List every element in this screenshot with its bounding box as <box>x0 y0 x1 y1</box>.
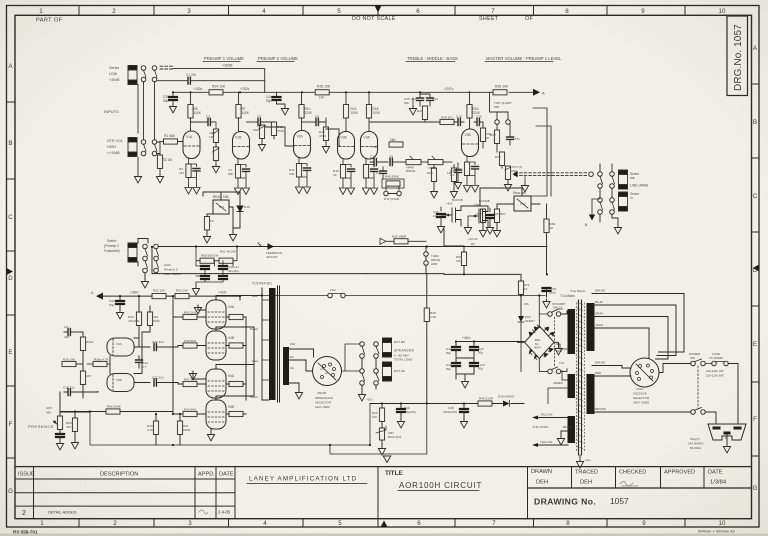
svg-text:VR2: VR2 <box>253 128 259 132</box>
coupling cap C22 to bottom grid <box>134 382 150 384</box>
power switch S1 pole2 <box>691 410 696 415</box>
resistor R30a vertical <box>80 337 85 351</box>
capacitor C7 series <box>374 159 376 166</box>
svg-text:5: 5 <box>337 8 341 15</box>
svg-text:2: 2 <box>112 8 116 15</box>
svg-text:4: 4 <box>262 8 266 15</box>
svg-text:DETAIL ADDED: DETAIL ADDED <box>48 510 77 515</box>
preset VR7 bias adjust <box>379 428 384 440</box>
ground cathode pair1 <box>198 305 206 310</box>
heater arrow bottom <box>532 443 538 447</box>
svg-text:V3B: V3B <box>116 378 122 382</box>
bottom band column ticks <box>79 519 685 527</box>
resistor R24 on rail <box>209 90 223 95</box>
svg-text:Preamp 2: Preamp 2 <box>164 268 178 272</box>
svg-text:V4A: V4A <box>228 305 235 309</box>
svg-text:220R: 220R <box>183 428 191 432</box>
wire bias line <box>370 403 524 405</box>
svg-text:INPUTS: INPUTS <box>104 109 119 114</box>
ground VR1 <box>212 164 219 173</box>
capacitor C1 coupling top line <box>157 80 188 82</box>
wire dashed bypass +30dB <box>160 65 173 67</box>
wire input routing <box>138 82 160 174</box>
svg-text:V2A: V2A <box>297 135 304 139</box>
svg-text:1057: 1057 <box>610 496 629 506</box>
svg-text:APPROVED: APPROVED <box>664 470 695 476</box>
svg-text:TREBLE - MIDDLE - BASS: TREBLE - MIDDLE - BASS <box>407 56 458 61</box>
core ground arrow <box>579 455 581 459</box>
svg-text:R42 1K5: R42 1K5 <box>184 311 196 315</box>
resistor R68 <box>461 252 466 266</box>
capacitor C15 <box>458 119 460 126</box>
svg-text:E: E <box>753 341 757 348</box>
svg-text:4 8: 4 8 <box>320 367 324 371</box>
svg-text:R.R QUAD: R.R QUAD <box>384 197 400 201</box>
svg-text:IMPEDANCE: IMPEDANCE <box>315 396 333 400</box>
cap C17 <box>507 137 514 139</box>
svg-text:4.7: 4.7 <box>142 365 147 369</box>
wire VT2 lower bus <box>365 229 520 274</box>
svg-text:50K: 50K <box>494 105 500 109</box>
screen resistor R52 <box>229 343 243 348</box>
wire primary tap yellow <box>592 328 649 359</box>
svg-text:DO NOT SCALE: DO NOT SCALE <box>352 16 396 22</box>
svg-text:10K: 10K <box>372 415 377 419</box>
svg-text:R29: R29 <box>495 155 501 159</box>
svg-text:2.2: 2.2 <box>450 173 455 177</box>
transistor VT4 fet <box>461 206 488 227</box>
svg-text:D13: D13 <box>244 205 250 209</box>
svg-text:R47 5K6: R47 5K6 <box>184 378 196 382</box>
svg-text:1K: 1K <box>524 287 528 291</box>
svg-text:C6: C6 <box>315 115 319 119</box>
svg-text:DRG.No. 1057: DRG.No. 1057 <box>733 24 744 91</box>
jack J8 ext speaker bottom <box>383 362 392 381</box>
line jacks cluster contacts col2 <box>598 198 603 203</box>
svg-text:6.3V HTRS: 6.3V HTRS <box>533 425 548 429</box>
resistor R45 bias divider <box>381 404 383 409</box>
svg-text:+30dB: +30dB <box>222 64 233 68</box>
svg-text:APPD.: APPD. <box>198 472 215 478</box>
ground droppers <box>192 286 199 295</box>
svg-text:Blue: Blue <box>252 294 258 298</box>
right band row letters <box>753 45 758 492</box>
svg-text:100K: 100K <box>373 111 381 115</box>
svg-text:400V: 400V <box>534 346 541 350</box>
resistor R66 <box>480 205 483 207</box>
ground C35 <box>486 225 493 234</box>
svg-text:T1A: T1A <box>559 361 564 365</box>
anode resistor R15 <box>345 92 347 104</box>
svg-text:100K: 100K <box>242 111 250 115</box>
wire feedback dashed pair to line jacks <box>515 172 588 174</box>
svg-text:1M: 1M <box>209 135 214 139</box>
anode resistor R10 <box>301 92 303 104</box>
svg-text:MAUVE: MAUVE <box>595 361 605 365</box>
capacitor C40 filter <box>201 266 209 269</box>
svg-text:R06 100K: R06 100K <box>107 405 122 409</box>
ground VT4 source <box>464 225 471 234</box>
svg-text:SELECTOR: SELECTOR <box>633 396 650 400</box>
svg-text:MAUVE: MAUVE <box>595 289 605 293</box>
svg-text:Brown: Brown <box>250 395 258 399</box>
svg-text:E: E <box>8 349 12 356</box>
svg-text:2: 2 <box>113 520 117 527</box>
reverb drive network C8 R45 <box>370 121 436 123</box>
wire footswitch feed <box>138 239 547 280</box>
screen resistor R54 <box>229 411 243 416</box>
svg-text:6: 6 <box>417 520 421 527</box>
resistor R25 on rail <box>315 90 329 95</box>
resistor R10b 470K <box>271 122 276 136</box>
jack J3 footswitch <box>128 243 137 262</box>
output tube V4A <box>206 300 226 329</box>
svg-text:22n: 22n <box>64 335 69 339</box>
dashed winding separators T1 <box>576 303 578 452</box>
wire bridge left to caps <box>518 341 525 344</box>
capacitor C43 reservoir <box>470 347 478 350</box>
diode D14 feedback <box>261 246 268 248</box>
svg-text:CHECKED: CHECKED <box>619 470 646 476</box>
svg-text:C16: C16 <box>476 115 482 119</box>
ground C31 <box>116 310 123 319</box>
svg-text:447: 447 <box>86 374 91 378</box>
resistor R22 shunt <box>431 168 436 182</box>
svg-text:DRIVE: DRIVE <box>406 169 415 173</box>
svg-text:Brown: Brown <box>250 327 258 331</box>
ground VR7 <box>378 446 385 455</box>
wire cathode grounds tubes <box>215 329 217 400</box>
coupling cap C4 in <box>64 331 68 333</box>
wire VT2 connections <box>480 188 540 206</box>
voltage selector VS1 <box>630 358 659 387</box>
svg-text:VT2: VT2 <box>520 202 526 206</box>
resistor R36 grid horizontal <box>93 361 107 366</box>
resistor R30 3K3 <box>440 119 454 124</box>
svg-text:SHEET: SHEET <box>479 16 499 22</box>
svg-text:R28: R28 <box>490 133 496 137</box>
pot VR1 preamp1 volume <box>213 129 218 143</box>
ground VR2 <box>258 142 265 151</box>
bottom centre mark <box>381 521 388 528</box>
tube V1A <box>183 131 200 159</box>
svg-text:7: 7 <box>492 520 496 527</box>
tube V2B <box>338 132 355 160</box>
svg-text:V3B: V3B <box>465 133 472 137</box>
pot VR6 presence <box>59 412 61 416</box>
resistor R36b <box>480 128 485 142</box>
left centre mark <box>7 268 14 275</box>
svg-text:50µ: 50µ <box>404 101 409 105</box>
svg-text:+5v6: +5v6 <box>446 202 453 206</box>
svg-text:BLUE: BLUE <box>595 300 603 304</box>
svg-text:+415v: +415v <box>218 291 227 295</box>
svg-text:50µ: 50µ <box>478 351 483 355</box>
svg-text:4Ω: 4Ω <box>290 366 294 370</box>
tube V3A <box>361 132 378 160</box>
svg-text:R46 220R: R46 220R <box>479 397 494 401</box>
anode resistor R5 <box>190 92 192 104</box>
resistor R45 390K boxed <box>382 179 404 188</box>
svg-text:R1 68K: R1 68K <box>164 134 176 138</box>
jack J6 series in <box>619 192 628 211</box>
svg-text:VR200: VR200 <box>317 391 327 395</box>
resistor R71 screen dropper <box>520 274 522 281</box>
wire T1 secondary heater taps <box>538 418 568 446</box>
svg-text:V3A: V3A <box>116 342 122 346</box>
svg-text:DRAWING No.: DRAWING No. <box>534 497 596 507</box>
ground cathode pair2 <box>193 371 206 379</box>
resistor R60b 4K7 <box>72 418 77 432</box>
ground C13 <box>412 98 414 106</box>
left band row letters <box>8 63 13 495</box>
wire feedback upper <box>152 247 426 274</box>
svg-text:470K: 470K <box>319 134 327 138</box>
cap C10 lower <box>68 389 70 396</box>
svg-text:100K: 100K <box>351 111 359 115</box>
svg-text:VOLTAGE: VOLTAGE <box>633 392 647 396</box>
svg-text:33K: 33K <box>46 411 51 415</box>
mains transformer core <box>579 300 582 455</box>
ground bridge right <box>554 342 559 346</box>
capacitor C presence <box>56 434 64 437</box>
svg-text:BIAS ADJ: BIAS ADJ <box>388 435 402 439</box>
checked signature <box>620 482 638 487</box>
svg-text:6: 6 <box>416 8 420 15</box>
wire brown to switch pole2 <box>592 411 691 413</box>
svg-text:BROWN: BROWN <box>595 407 606 411</box>
svg-text:47K/2W: 47K/2W <box>128 319 139 323</box>
jack J1 contacts <box>141 66 146 71</box>
wire bias to grid bus <box>173 404 370 446</box>
ground input jacks <box>134 174 141 183</box>
svg-text:680R: 680R <box>399 235 407 239</box>
ground dash line <box>521 183 528 192</box>
resistor R26 on rail <box>493 90 507 95</box>
svg-text:100-120v 5AT: 100-120v 5AT <box>706 374 724 378</box>
ground C19 <box>454 180 461 189</box>
coupling network V1A to V1B <box>191 121 209 123</box>
wire OT secondary taps <box>289 349 314 390</box>
heater arrow top <box>532 416 538 420</box>
svg-text:Slate: Slate <box>252 359 259 363</box>
svg-text:10: 10 <box>719 520 726 527</box>
resistor R23 grid leak V1B <box>451 168 456 182</box>
svg-text:C13: C13 <box>411 97 417 101</box>
jack J2 gtr input <box>128 138 137 157</box>
svg-text:+30dB: +30dB <box>109 78 120 82</box>
wire R1 to V1A grid <box>178 142 184 146</box>
ground C4a <box>281 106 288 115</box>
anode resistor R33 phase tube <box>469 92 471 104</box>
cathode network V2B <box>339 159 354 195</box>
svg-text:R21: R21 <box>417 109 423 113</box>
resistor R40 <box>153 421 158 435</box>
cathode network V1B <box>234 159 249 195</box>
wire bias winding <box>548 371 568 404</box>
svg-text:4: 4 <box>263 520 267 527</box>
node A arrow head <box>533 89 540 96</box>
output tube V5A <box>206 369 226 398</box>
jack J2 contacts <box>141 140 146 145</box>
svg-text:26K: 26K <box>390 138 397 142</box>
ground tube4 bottom <box>210 429 212 432</box>
cap C44 divider <box>136 360 143 362</box>
svg-text:T1/2 REF 601: T1/2 REF 601 <box>252 282 272 286</box>
jack J5 series out <box>619 170 628 189</box>
svg-text:MASTER VOLUME - PREAMP 1 LEVEL: MASTER VOLUME - PREAMP 1 LEVEL <box>486 56 562 61</box>
wire VR2 wiper to V2A grid <box>265 127 294 146</box>
resistor R64 collector <box>546 204 548 219</box>
svg-text:50µ: 50µ <box>109 303 114 307</box>
wire footswitch top link <box>138 239 148 244</box>
grid resistor R47 tube3 <box>183 381 197 386</box>
tube V2A <box>294 131 311 159</box>
cathode network V3A <box>362 159 377 195</box>
svg-text:R62 10K: R62 10K <box>153 289 166 293</box>
grid resistor R48 tube2 <box>183 343 197 348</box>
resistor R41 <box>177 421 182 435</box>
ground presence <box>56 441 63 450</box>
svg-text:DESCRIPTION: DESCRIPTION <box>100 472 138 478</box>
right centre mark <box>753 265 760 272</box>
wire grid bus vertical <box>173 313 178 414</box>
svg-text:TOP QUART: TOP QUART <box>494 101 512 105</box>
ground C30 <box>169 104 176 113</box>
capacitor C42 reservoir <box>452 347 460 350</box>
wire fuse to plug <box>728 364 738 425</box>
ground R66 R67 <box>479 228 486 237</box>
resistor R67 <box>494 209 499 223</box>
svg-text:C35: C35 <box>493 212 499 216</box>
ground plug earth <box>726 435 728 445</box>
svg-text:1M: 1M <box>456 259 461 263</box>
ground VT1 collector <box>229 232 236 241</box>
ground footswitch <box>141 279 148 288</box>
tone stack caps C13 C14 <box>419 92 421 98</box>
svg-text:LANEY AMPLIFICATION LTD: LANEY AMPLIFICATION LTD <box>249 476 357 483</box>
svg-text:PREAMP 1 VOLUME: PREAMP 1 VOLUME <box>204 56 244 61</box>
svg-text:V2B: V2B <box>341 136 348 140</box>
svg-text:3: 3 <box>188 520 192 527</box>
svg-text:R22: R22 <box>427 171 433 175</box>
svg-text:Click: Click <box>164 263 171 267</box>
wire tone feed verticals <box>522 108 551 196</box>
grid resistor R42 tube1 <box>183 314 197 319</box>
svg-text:R45 390K: R45 390K <box>385 175 400 179</box>
wire anode bus left pair <box>216 296 262 401</box>
svg-text:16: 16 <box>325 371 329 375</box>
wire T1 secondary HT <box>556 311 568 349</box>
svg-text:5: 5 <box>338 520 342 527</box>
svg-text:50µ: 50µ <box>478 367 483 371</box>
resistor R06 100K horizontal <box>106 409 120 414</box>
capacitor C41 filter <box>219 266 227 269</box>
anode resistor R7 <box>238 92 240 104</box>
svg-text:16Ω USED: 16Ω USED <box>315 405 331 409</box>
svg-text:out: out <box>630 176 635 180</box>
svg-text:Reac tab: Reac tab <box>513 191 526 195</box>
anode resistor R18 <box>368 92 370 104</box>
ground heater CT <box>557 436 564 445</box>
svg-text:J4,8: J4,8 <box>46 406 52 410</box>
svg-text:240 MAINS: 240 MAINS <box>688 442 703 446</box>
svg-text:C: C <box>8 214 13 221</box>
coupling V2A to V2B <box>302 121 317 123</box>
capacitor C19 <box>455 170 462 172</box>
svg-text:LOW: LOW <box>109 72 118 76</box>
svg-text:AMP: AMP <box>431 262 438 266</box>
svg-text:PRESENCE: PRESENCE <box>28 424 54 429</box>
svg-text:2K7: 2K7 <box>179 171 185 175</box>
svg-text:C34: C34 <box>476 212 482 216</box>
transistor VT3 fet <box>446 206 461 226</box>
svg-text:BC184B: BC184B <box>452 198 463 202</box>
wire droppers <box>196 247 237 287</box>
capacitor C31 A-line <box>119 296 121 301</box>
screen resistor R53 <box>229 381 243 386</box>
capacitor C48 bias <box>463 404 465 410</box>
svg-text:V1B: V1B <box>235 136 242 140</box>
svg-text:-42V: -42V <box>366 398 373 402</box>
right band row ticks <box>752 84 760 456</box>
svg-text:+252v: +252v <box>240 87 250 91</box>
svg-text:ADJUST: ADJUST <box>266 255 278 259</box>
svg-text:+445v: +445v <box>462 336 471 340</box>
svg-text:R26 10K: R26 10K <box>495 85 509 89</box>
svg-text:R43 5K6: R43 5K6 <box>184 408 196 412</box>
wire HT rail +245V <box>173 91 533 93</box>
svg-text:R36a 4.7K: R36a 4.7K <box>94 358 110 362</box>
wire VT1 collector to ground arrow <box>229 207 240 228</box>
top centre mark <box>375 6 382 13</box>
svg-text:C45 22n: C45 22n <box>152 340 164 344</box>
svg-text:D: D <box>8 275 13 282</box>
centre mark above title block <box>383 456 391 462</box>
svg-text:R30 3K3: R30 3K3 <box>441 116 453 120</box>
svg-text:OF: OF <box>525 16 533 22</box>
svg-text:50µ: 50µ <box>446 367 451 371</box>
transistor VT1 reverb driver <box>213 200 229 214</box>
svg-text:47k: 47k <box>524 302 529 306</box>
svg-text:R24 10K: R24 10K <box>212 85 226 89</box>
dashed gang line power switch <box>697 366 699 409</box>
svg-text:DEH: DEH <box>580 480 592 486</box>
svg-text:4K7: 4K7 <box>66 425 72 429</box>
resistor R1 68K <box>164 139 178 144</box>
wire VT1 top <box>203 192 240 200</box>
svg-text:50µ: 50µ <box>266 99 272 103</box>
resistor R34 splitter supply <box>138 296 140 312</box>
svg-text:40+40µ: 40+40µ <box>228 269 239 273</box>
svg-text:V5B: V5B <box>228 405 234 409</box>
svg-text:1W: 1W <box>319 96 324 100</box>
svg-text:DATE: DATE <box>708 470 723 476</box>
svg-text:10K: 10K <box>289 172 295 176</box>
svg-text:4.5K: 4.5K <box>430 315 437 319</box>
top band column numbers <box>39 8 726 15</box>
svg-text:R2 1M: R2 1M <box>163 158 173 162</box>
capacitor C2 interstage <box>208 119 210 126</box>
jack J3 contacts <box>143 244 148 249</box>
wire splitter plates <box>134 332 150 374</box>
svg-text:C22 22n: C22 22n <box>152 376 164 380</box>
cathode V3B <box>463 157 478 193</box>
node junction dots <box>239 91 241 93</box>
wire primary tap orange <box>592 317 668 360</box>
diode D15 <box>518 316 524 322</box>
wire presence node <box>60 392 90 412</box>
